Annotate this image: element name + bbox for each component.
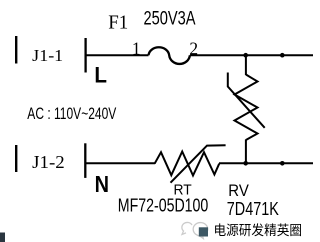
connector J1-2 polarity bar: [15, 145, 17, 172]
connector J1-1 polarity bar: [15, 36, 17, 64]
page corner mark bottom-left: [0, 233, 5, 242]
wire RV top lead: [245, 55, 247, 75]
fuse F1 symbol: [149, 47, 190, 64]
junction dot L rail right: [280, 53, 285, 58]
svg-text:J1-1: J1-1: [32, 46, 63, 65]
svg-text:MF72-05D100: MF72-05D100: [118, 195, 209, 216]
junction dot L rail at RV: [243, 53, 248, 58]
svg-text:RV: RV: [228, 181, 249, 200]
wire N rail: RT to right edge: [219, 162, 313, 164]
svg-text:J1-2: J1-2: [32, 152, 64, 172]
svg-text:电源研发精英圈: 电源研发精英圈: [214, 222, 303, 238]
svg-text:L: L: [94, 63, 107, 88]
watermark icon chat bubble left: [182, 222, 192, 234]
svg-text:AC : 110V~240V: AC : 110V~240V: [27, 105, 116, 123]
connector J1-2 pin line: [84, 143, 86, 178]
thermistor RT zigzag body: [155, 152, 220, 176]
svg-text:250V3A: 250V3A: [144, 8, 196, 29]
svg-text:F1: F1: [108, 12, 128, 34]
svg-text:7D471K: 7D471K: [227, 199, 279, 219]
watermark icon dark square overlay: [199, 227, 208, 236]
connector J1-1 pin line: [84, 38, 86, 73]
varistor RV zigzag body: [235, 75, 258, 141]
varistor RV diagonal stroke: [228, 73, 265, 128]
wire L rail: connector to fuse: [86, 54, 149, 56]
wire N rail: connector to RT: [85, 162, 155, 164]
wire RV bottom lead: [245, 140, 247, 164]
junction dot N rail at RV: [243, 161, 248, 166]
watermark icon chat bubble right: [193, 223, 208, 239]
svg-text:1: 1: [132, 38, 141, 58]
wire L rail: fuse to right edge: [190, 54, 313, 56]
thermistor RT diagonal stroke: [171, 145, 226, 183]
svg-text:N: N: [95, 171, 109, 197]
junction dot N rail right: [280, 161, 285, 166]
